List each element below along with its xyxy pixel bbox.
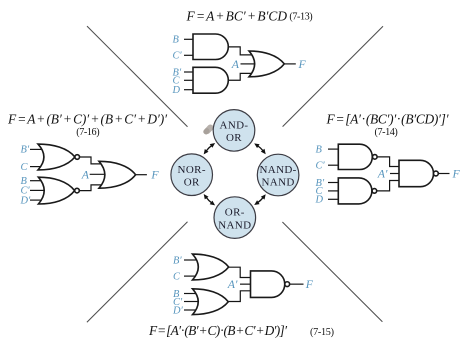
wire NOR2 to OR (left) <box>79 185 104 191</box>
wire input D' (bottom) <box>184 309 200 311</box>
NAND gate G12 (bottom output) <box>251 271 285 298</box>
NOR gate G5 bubble <box>75 188 80 193</box>
svg-text:F = A + (B′ + C)′ + (B + C′ +: F = A + (B′ + C)′ + (B + C′ + D′)′ <box>7 111 168 126</box>
svg-text:B: B <box>173 35 180 46</box>
AND gate G1 (top, inputs B C') <box>193 34 228 60</box>
wire input B (top) <box>184 38 194 40</box>
wire OR2 to NAND (bottom) <box>228 291 251 302</box>
wire input C (left) <box>30 166 46 168</box>
wire input B (bottom) <box>184 293 200 295</box>
wire input C (right) <box>328 190 339 192</box>
wire input D (top) <box>184 89 194 91</box>
svg-text:A′: A′ <box>377 166 388 180</box>
svg-text:AND-: AND- <box>220 120 249 132</box>
svg-text:C′: C′ <box>316 161 326 172</box>
svg-text:OR: OR <box>184 176 200 188</box>
divider line top-right <box>283 26 383 126</box>
wire input B' (bottom) <box>184 259 200 261</box>
svg-text:D: D <box>172 85 181 96</box>
wire input C (bottom) <box>184 275 200 277</box>
svg-text:B′: B′ <box>173 255 182 266</box>
wire NAND2 to NAND3 (right) <box>377 181 400 191</box>
wire output F (bottom) <box>290 283 304 285</box>
wire input B (right) <box>328 148 339 150</box>
wire output F (right) <box>438 173 449 175</box>
svg-text:F: F <box>298 57 307 71</box>
svg-text:D: D <box>315 195 324 206</box>
wire output F (top) <box>284 63 296 65</box>
NAND gate G8 bubble <box>372 189 377 194</box>
svg-text:A: A <box>81 167 90 181</box>
svg-text:D′: D′ <box>172 305 184 316</box>
wire input B (left) <box>30 180 46 182</box>
svg-text:C: C <box>173 271 181 282</box>
svg-text:(7-16): (7-16) <box>76 127 99 138</box>
divider line top-left <box>87 26 188 127</box>
wire input C (top) <box>184 79 194 81</box>
wire NOR1 to OR (left) <box>80 157 105 164</box>
arrow AND-OR to NOR-OR <box>204 143 215 154</box>
svg-text:(7-13): (7-13) <box>289 12 312 23</box>
arrow OR-NAND to NOR-OR <box>204 194 215 205</box>
svg-text:(7-14): (7-14) <box>375 127 398 138</box>
svg-text:A′: A′ <box>227 277 238 291</box>
wire input B' (top) <box>184 71 194 73</box>
NOR gate G4 (left, inputs B' C) <box>38 144 75 170</box>
wire input A' (bottom) <box>240 283 252 285</box>
wire input C' (left) <box>30 189 46 191</box>
wire input C' (top) <box>184 54 194 56</box>
node circle NOR-OR <box>171 154 213 196</box>
svg-text:C: C <box>21 162 29 173</box>
smudge artifact <box>202 123 215 135</box>
node circle NAND-NAND <box>257 154 299 196</box>
wire OR1 to NAND (bottom) <box>229 267 252 277</box>
svg-text:NOR-: NOR- <box>178 164 206 176</box>
svg-text:C′: C′ <box>173 51 183 62</box>
wire input B' (left) <box>30 148 46 150</box>
NOR gate G4 bubble <box>75 155 80 160</box>
wire output F (left) <box>136 174 147 176</box>
NAND gate G7 bubble <box>373 155 378 160</box>
NAND gate G12 bubble <box>285 282 290 287</box>
svg-text:F = [A′ · (B′ + C) · (B + C′ +: F = [A′ · (B′ + C) · (B + C′ + D′)]′ <box>148 323 288 338</box>
divider line bottom-left <box>87 222 188 322</box>
divider line bottom-right <box>282 222 382 322</box>
wire input D (right) <box>328 198 339 200</box>
svg-text:F: F <box>452 166 461 180</box>
wire input A (left) <box>90 173 107 175</box>
AND gate G2 (top, inputs B' C D) <box>193 67 228 93</box>
svg-text:OR-: OR- <box>225 207 245 219</box>
OR gate G6 (left output) <box>99 161 136 188</box>
NAND gate G7 (right, inputs B C') <box>338 144 372 169</box>
NAND gate G8 (right, inputs B' C D) <box>338 178 372 204</box>
wire input A (top) <box>241 63 257 65</box>
OR gate G11 (bottom, inputs B C' D') <box>193 289 229 315</box>
wire NAND1 to NAND3 (right) <box>377 157 400 167</box>
svg-text:B′: B′ <box>21 145 30 156</box>
svg-text:D′: D′ <box>20 195 32 206</box>
svg-text:B: B <box>316 144 323 155</box>
wire input B' (right) <box>328 182 339 184</box>
wire AND1 to OR (top) <box>228 47 254 55</box>
svg-text:F: F <box>150 168 159 182</box>
wire AND2 to OR (top) <box>228 73 254 80</box>
wire input D' (left) <box>30 199 46 201</box>
svg-text:NAND: NAND <box>262 177 295 189</box>
node circle AND-OR <box>213 110 255 152</box>
wire input A' (right) <box>390 173 401 175</box>
wire input C' (right) <box>328 164 339 166</box>
wire input C' (bottom) <box>184 301 200 303</box>
svg-text:A: A <box>231 57 240 71</box>
NAND gate G9 bubble <box>434 171 439 176</box>
arrow OR-NAND to NAND-NAND <box>254 194 266 205</box>
svg-text:NAND-: NAND- <box>259 164 296 176</box>
svg-text:OR: OR <box>226 132 242 144</box>
OR gate G10 (bottom, inputs B' C) <box>193 254 229 280</box>
arrow AND-OR to NAND-NAND <box>254 143 266 154</box>
NOR gate G5 (left, inputs B C' D') <box>38 177 74 204</box>
OR gate G3 (top output) <box>249 51 284 77</box>
NAND gate G9 (right output) <box>399 160 434 186</box>
svg-text:F = A + BC′ + B′CD: F = A + BC′ + B′CD <box>186 8 288 23</box>
svg-text:(7-15): (7-15) <box>310 327 334 338</box>
svg-text:F = [A′ · (BC′)′ · (B′CD)′]′: F = [A′ · (BC′)′ · (B′CD)′]′ <box>326 111 450 126</box>
svg-text:NAND: NAND <box>218 219 251 231</box>
node circle OR-NAND <box>214 197 256 239</box>
svg-text:F: F <box>305 277 314 291</box>
